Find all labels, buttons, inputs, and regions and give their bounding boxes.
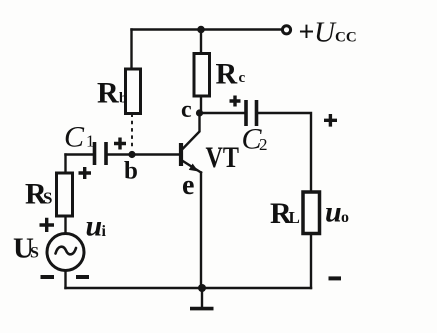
svg-text:R: R — [97, 77, 119, 110]
svg-text:+: + — [299, 17, 315, 48]
svg-text:C: C — [64, 121, 85, 154]
svg-text:c: c — [239, 70, 246, 86]
svg-text:CC: CC — [335, 30, 357, 46]
svg-text:S: S — [30, 245, 39, 262]
svg-text:U: U — [314, 17, 337, 49]
svg-text:u: u — [325, 196, 342, 229]
svg-text:e: e — [182, 170, 194, 201]
svg-text:b: b — [119, 91, 127, 107]
svg-text:2: 2 — [259, 135, 268, 154]
svg-text:b: b — [124, 158, 138, 185]
svg-text:VT: VT — [206, 141, 240, 174]
svg-text:S: S — [43, 189, 52, 208]
svg-text:R: R — [216, 58, 238, 91]
svg-text:i: i — [102, 223, 107, 240]
svg-text:c: c — [181, 97, 192, 123]
svg-text:o: o — [341, 209, 349, 226]
svg-text:L: L — [289, 208, 300, 227]
svg-text:1: 1 — [86, 132, 95, 151]
svg-text:u: u — [86, 210, 103, 243]
